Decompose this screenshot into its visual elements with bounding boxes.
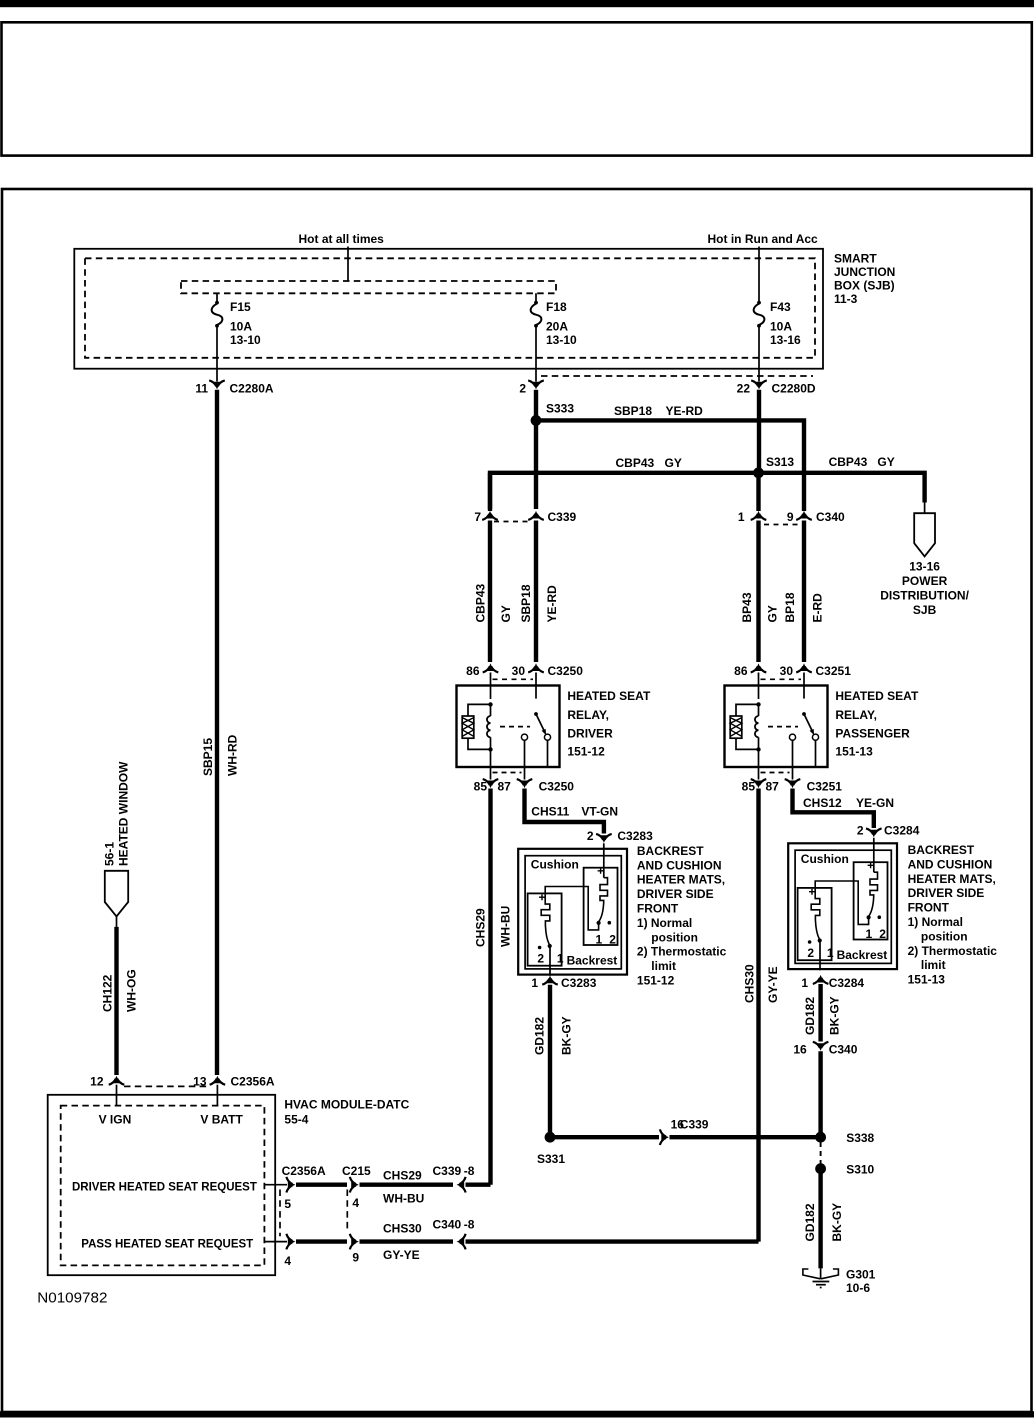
svg-text:S331: S331 [537,1152,565,1166]
svg-text:F15: F15 [230,300,251,314]
backrest element blade C3284 [815,920,819,939]
cushion element box C3283 [584,868,618,945]
svg-text:GY: GY [665,456,682,470]
svg-text:BP18: BP18 [783,592,797,622]
svg-text:GY: GY [766,605,780,622]
svg-text:13-10: 13-10 [230,333,261,347]
svg-text:Hot at all times: Hot at all times [299,232,385,246]
svg-text:S310: S310 [846,1163,874,1177]
cushion element box C3284 [854,862,888,939]
wire CH122 WH-OG [114,927,118,1075]
node S338 [815,1132,826,1143]
wire CH122 WH-OG thin lead [116,916,118,927]
wire pass request stub [264,1241,287,1243]
node S313 [753,467,764,478]
svg-text:C3284: C3284 [829,976,865,990]
connector C3251 pin 30 [801,663,808,671]
backrest element box C3283 [528,893,562,965]
svg-text:BACKREST: BACKREST [908,843,975,857]
svg-text:position: position [651,930,698,944]
svg-text:C2280A: C2280A [230,382,274,396]
svg-text:87: 87 [766,780,780,794]
svg-text:12: 12 [90,1075,104,1089]
svg-text:1) Normal: 1) Normal [637,916,692,930]
svg-text:CHS11: CHS11 [531,804,569,818]
relay coil driver relay [490,704,492,716]
wire pin2 lead C3283 [603,843,605,877]
fuse F15 [215,301,219,305]
svg-text:1: 1 [866,927,873,941]
backrest element plus C3284 [809,889,815,895]
svg-text:C2280D: C2280D [772,382,816,396]
svg-text:BK-GY: BK-GY [827,996,841,1035]
wire SBP15 WH-RD [215,390,219,1075]
svg-text:2: 2 [519,382,526,396]
svg-text:2: 2 [879,927,886,941]
svg-text:2: 2 [609,933,616,947]
svg-text:HEATED SEAT: HEATED SEAT [567,689,651,703]
svg-text:10A: 10A [230,320,252,334]
connector C215 pin 9 [351,1238,359,1245]
relay switch pivot passenger relay [802,712,806,716]
connector C3251 pin 85 [755,781,762,789]
svg-text:C3250: C3250 [548,664,584,678]
svg-text:S313: S313 [766,455,794,469]
svg-text:DISTRIBUTION/: DISTRIBUTION/ [880,589,969,603]
svg-text:PASSENGER: PASSENGER [835,727,910,741]
svg-text:13-10: 13-10 [546,333,577,347]
relay linkage dashed driver relay [500,726,530,728]
HVAC module dashed outline [61,1106,265,1266]
dashed link S338 to S310 [820,1142,822,1164]
heater mats outer box C3283 [518,849,627,975]
svg-text:SJB: SJB [913,603,937,617]
wire F18 top lead [535,293,537,301]
smart junction box SJB outer box [74,249,823,369]
connector C2356A pin 4 [288,1238,296,1245]
svg-text:-8: -8 [464,1217,475,1231]
svg-text:10-6: 10-6 [846,1281,870,1295]
wire pin87 stub below passenger relay [792,767,794,780]
relay resistor branch driver relay [468,704,491,749]
svg-text:1: 1 [738,510,745,524]
svg-text:PASS HEATED SEAT REQUEST: PASS HEATED SEAT REQUEST [81,1239,253,1251]
svg-text:WH-BU: WH-BU [383,1192,424,1206]
wire pin30 stub passenger relay [803,673,805,687]
backrest element plus C3283 [539,894,545,900]
svg-text:151-12: 151-12 [567,745,605,759]
connector C340 pin 9 [801,511,808,519]
svg-text:HVAC MODULE-DATC: HVAC MODULE-DATC [284,1098,409,1112]
wire pin86 stub passenger relay [758,673,760,687]
wire to power distribution [924,500,926,514]
wire pin87 stub below driver relay [524,767,526,780]
SJB inner dashed outline [85,258,815,358]
wire pin30 stub driver relay [535,673,537,687]
wire CHS29 seg2 [360,1182,454,1186]
svg-text:55-4: 55-4 [284,1113,308,1127]
svg-text:limit: limit [921,958,946,972]
relay contact right stub passenger relay [815,740,817,767]
wire F18 bottom lead [535,327,537,382]
relay coil bottom node driver relay [488,747,492,751]
connector C340 pin 16 [817,1043,824,1051]
relay contact right stub driver relay [547,740,549,767]
svg-text:30: 30 [512,664,526,678]
wire SBP18 above C339 [534,420,538,509]
svg-text:9: 9 [787,510,794,524]
wire backrest out C3283 [549,948,551,976]
svg-text:87: 87 [498,780,512,794]
connector C3251 pin 86 [755,663,762,671]
svg-text:11-3: 11-3 [834,292,858,306]
heater mats inner box C3284 [795,850,891,963]
svg-text:RELAY,: RELAY, [567,708,609,722]
svg-text:GD182: GD182 [803,997,817,1035]
connector C2356A pin 5 [288,1181,296,1188]
connector C3250 pin 87 [521,781,528,789]
svg-text:2: 2 [537,952,544,966]
svg-text:C3251: C3251 [807,780,843,794]
wire CHS29 WH-BU [488,789,492,1185]
wire CBP43 GY to relay driver 86 [488,521,492,663]
wire F15 top lead [216,293,218,301]
connector C2280D dashed line [541,375,813,377]
svg-text:CHS29: CHS29 [474,908,488,947]
relay coil lead driver relay [490,687,492,700]
svg-text:C3283: C3283 [617,829,653,843]
relay contact 87 driver relay [521,734,527,740]
wire CHS11 VT-GN [525,789,604,834]
ground G301 [803,1269,839,1279]
svg-text:85: 85 [742,780,756,794]
wire CHS29 seg3 [466,1182,491,1186]
svg-text:86: 86 [734,664,748,678]
wire C339-16 to S338 [670,1135,821,1139]
svg-text:86: 86 [466,664,480,678]
svg-text:C215: C215 [342,1164,371,1178]
symbol power distribution ref 13-16 [914,513,935,556]
svg-text:HEATED SEAT: HEATED SEAT [835,689,919,703]
svg-text:13-16: 13-16 [770,333,801,347]
backrest heater element C3283 [541,893,550,925]
wire ground lead [820,1268,822,1279]
svg-text:HEATER MATS,: HEATER MATS, [908,872,996,886]
svg-text:S338: S338 [846,1131,874,1145]
wire BP18 E-RD to relay passenger 30 [802,521,806,663]
symbol heated window ref 56-1 [105,871,128,917]
connector C3284 pin 1 [817,975,824,983]
wire pin13 stub [216,1085,218,1106]
svg-text:22: 22 [737,382,751,396]
svg-text:56-1: 56-1 [103,842,117,866]
wire pin86 stub driver relay [490,673,492,687]
svg-text:2) Thermostatic: 2) Thermostatic [637,945,727,959]
svg-text:SBP15: SBP15 [201,738,215,776]
svg-text:Backrest: Backrest [837,948,888,962]
svg-text:CHS12: CHS12 [803,796,842,810]
svg-text:position: position [921,929,968,943]
backrest element contact 2 C3283 [538,946,542,950]
wire pin2 lead C3284 [873,838,875,872]
svg-text:FRONT: FRONT [637,902,679,916]
node S310 [815,1163,826,1174]
svg-text:C339: C339 [433,1164,462,1178]
connector C3284 pin 2 [871,830,878,838]
wire pin2 to S333 [534,390,538,421]
svg-text:GY-YE: GY-YE [383,1248,420,1262]
connector C3250 pin 30 [533,663,540,671]
wire pin85 stub below driver relay [490,767,492,780]
svg-text:HEATER MATS,: HEATER MATS, [637,873,725,887]
svg-text:13-16: 13-16 [909,560,940,574]
svg-text:Backrest: Backrest [567,954,618,968]
svg-text:11: 11 [195,382,208,396]
relay switch lead passenger relay [803,687,805,699]
wire pin12 stub [116,1085,118,1106]
wire S331 to C339-16 [555,1135,659,1139]
relay coil lead passenger relay [758,687,760,700]
connector C3251 bottom dashed line [761,772,790,774]
svg-text:DRIVER HEATED SEAT REQUEST: DRIVER HEATED SEAT REQUEST [72,1182,257,1194]
svg-text:JUNCTION: JUNCTION [834,265,895,279]
svg-text:2: 2 [857,824,864,838]
cushion element blade C3284 [869,897,874,916]
svg-text:BACKREST: BACKREST [637,844,704,858]
relay box passenger relay [725,686,828,768]
svg-text:C3251: C3251 [816,664,852,678]
wire F43 bottom lead [758,327,760,382]
relay resistor branch passenger relay [736,704,759,749]
svg-text:7: 7 [474,510,481,524]
svg-text:C3283: C3283 [561,976,597,990]
svg-text:C3250: C3250 [539,780,575,794]
SJB internal dashed bus rectangle [181,281,556,293]
svg-text:C3284: C3284 [884,824,920,838]
relay switch blade passenger relay [804,714,812,731]
svg-text:30: 30 [780,664,794,678]
connector C340 pin 8 [457,1238,465,1245]
node S331 [545,1132,556,1143]
svg-text:YE-RD: YE-RD [545,585,559,623]
wire cushion to backrest C3283 [545,887,598,930]
backrest element box C3284 [798,888,832,960]
svg-text:BK-GY: BK-GY [830,1203,844,1242]
relay box driver relay [457,686,560,768]
wire SBP18 YE-RD to relay driver 30 [534,521,538,663]
connector C339 pin 8 [457,1181,465,1188]
backrest element contact 2 C3284 [808,940,812,944]
connector C2356A pin 12 [113,1076,120,1084]
connector pin 22 C2280D [756,382,763,390]
connector C3251 top dashed line [761,678,802,680]
svg-text:GY-YE: GY-YE [766,966,780,1003]
svg-text:1: 1 [557,952,564,966]
wire CHS12 YE-GN [793,789,874,829]
cushion heater element C3283 [600,878,608,902]
bottom black bar [0,1411,1034,1417]
relay wire 87 driver relay [524,740,526,767]
svg-text:SBP18: SBP18 [614,404,652,418]
relay switch blade driver relay [536,714,544,731]
svg-text:2: 2 [807,946,814,960]
wire Hot in Run and Acc feed [758,247,760,303]
connector C339 pin (SBP18) [533,511,540,519]
relay coil bottom node passenger relay [756,747,760,751]
connector C3250 bottom dashed line [493,772,522,774]
svg-text:Cushion: Cushion [531,858,579,872]
top black bar [0,0,1034,7]
connector C340 dashed line [764,524,799,526]
svg-text:10A: 10A [770,320,792,334]
wire cushion to backrest C3284 [815,881,868,924]
svg-text:4: 4 [284,1254,291,1268]
svg-text:DRIVER: DRIVER [567,727,613,741]
connector C339 pin 16 inline [661,1134,669,1141]
svg-text:AND CUSHION: AND CUSHION [908,857,993,871]
svg-text:CHS30: CHS30 [383,1222,422,1236]
svg-text:C339: C339 [548,510,577,524]
svg-text:5: 5 [284,1197,291,1211]
svg-text:151-13: 151-13 [835,745,873,759]
connector C3250 pin 85 [487,781,494,789]
svg-text:BK-GY: BK-GY [559,1016,573,1055]
wire CHS30 seg3 [466,1239,759,1243]
fuse F18 [534,301,538,305]
HVAC module box [48,1095,276,1275]
svg-text:CHS29: CHS29 [383,1169,422,1183]
connector pin 11 C2280A [214,382,221,390]
wire backrest out C3284 [819,943,821,971]
svg-text:20A: 20A [546,320,568,334]
svg-text:C340: C340 [816,510,845,524]
svg-text:F43: F43 [770,300,791,314]
svg-text:4: 4 [352,1196,359,1210]
fuse F43 [757,301,761,305]
svg-text:C340: C340 [829,1043,858,1057]
svg-text:N0109782: N0109782 [37,1290,107,1307]
relay coil to pin85 passenger relay [758,749,760,767]
svg-text:C339: C339 [680,1118,709,1132]
svg-text:V IGN: V IGN [99,1113,132,1127]
svg-text:GD182: GD182 [803,1203,817,1241]
wire CHS30 seg2 [360,1239,454,1243]
svg-text:VT-GN: VT-GN [581,804,618,818]
svg-text:CBP43: CBP43 [829,455,868,469]
wire CBP43 GY horizontal [490,473,925,511]
cushion element plus C3283 [598,868,604,874]
relay coil top node passenger relay [756,702,760,706]
svg-text:DRIVER SIDE: DRIVER SIDE [908,886,985,900]
svg-text:limit: limit [651,959,676,973]
connector C3250 top dashed line [493,678,534,680]
relay contact 87 passenger relay [789,734,795,740]
svg-text:2) Thermostatic: 2) Thermostatic [908,944,998,958]
relay contact right driver relay [544,734,550,740]
relay wire 87 passenger relay [792,740,794,767]
wire GD182 BK-GY passenger upper [818,984,822,1042]
svg-text:RELAY,: RELAY, [835,708,877,722]
dashed C215 link [346,1190,348,1233]
svg-text:CH122: CH122 [101,974,115,1012]
svg-text:9: 9 [352,1251,359,1265]
wire CHS29 seg1 [296,1182,347,1186]
svg-text:C340: C340 [433,1217,462,1231]
wire pin85 stub below passenger relay [758,767,760,780]
cushion element plus C3284 [868,862,874,868]
svg-text:C2356A: C2356A [282,1164,326,1178]
connector C2356A dashed line [124,1085,210,1087]
connector C339 dashed line [494,521,532,523]
dashed C2356A link [279,1190,281,1237]
relay coil passenger relay [758,704,760,716]
svg-text:POWER: POWER [902,574,948,588]
svg-text:S333: S333 [546,401,574,415]
wire BP43 GY to relay passenger 86 [756,521,760,663]
svg-text:1: 1 [596,933,603,947]
svg-text:GD182: GD182 [533,1017,547,1055]
wire GD182 BK-GY to ground [818,1173,822,1268]
wire pin22 down [757,390,761,473]
svg-text:16: 16 [793,1043,807,1057]
svg-text:GY: GY [877,455,894,469]
connector pin 2 C2280D [533,382,540,390]
top empty header box [2,22,1032,155]
wire F15 bottom lead [216,327,218,382]
svg-text:85: 85 [474,780,488,794]
svg-text:YE-RD: YE-RD [666,404,704,418]
relay switch lead driver relay [535,687,537,699]
connector C215 pin 4 driver [351,1181,359,1188]
relay linkage dashed passenger relay [768,726,798,728]
cushion heater element C3284 [870,872,878,896]
wire CHS30 GY-YE [756,789,760,1242]
wire S313 down [756,473,760,511]
connector C3283 pin 2 [601,835,608,843]
svg-text:F18: F18 [546,300,567,314]
node S333 [531,415,542,426]
svg-text:DRIVER SIDE: DRIVER SIDE [637,887,714,901]
svg-text:YE-GN: YE-GN [856,796,894,810]
wire SBP18 YE-RD horizontal [541,420,804,511]
wire Hot at all times feed [347,247,349,282]
svg-text:Hot in Run and Acc: Hot in Run and Acc [708,232,819,246]
svg-text:1: 1 [531,976,538,990]
heater mats outer box C3284 [788,843,897,969]
svg-text:G301: G301 [846,1267,876,1281]
cushion element contact 2 C3284 [878,915,882,919]
svg-text:CBP43: CBP43 [473,583,487,622]
wire CBP43 above C339 [488,473,492,509]
svg-text:E-RD: E-RD [811,593,825,623]
wire CHS30 seg1 [296,1239,347,1243]
svg-text:C2356A: C2356A [231,1075,275,1089]
svg-text:151-12: 151-12 [637,974,675,988]
svg-text:WH-BU: WH-BU [498,906,512,947]
svg-text:FRONT: FRONT [908,901,950,915]
svg-text:SBP18: SBP18 [519,584,533,622]
connector C3283 pin 1 [547,976,554,984]
relay contact right passenger relay [812,734,818,740]
connector C2356A pin 13 [214,1076,221,1084]
cushion element blade C3283 [599,902,604,921]
backrest element blade C3283 [545,926,549,945]
svg-text:BOX (SJB): BOX (SJB) [834,278,895,292]
wire C340-16 to S338 [818,1051,822,1137]
wire driver request stub [264,1184,287,1186]
heater mats inner box C3283 [525,856,621,969]
svg-text:151-13: 151-13 [908,973,946,987]
